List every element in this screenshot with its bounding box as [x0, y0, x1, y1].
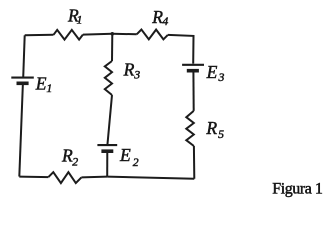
svg-text:R: R	[61, 145, 73, 165]
wire E2 to bottom junction	[106, 151, 108, 176]
battery E1	[11, 73, 52, 95]
node top junction	[111, 32, 115, 36]
svg-text:E: E	[35, 73, 47, 93]
resistor R5	[186, 111, 224, 146]
wire left side lower (E1 to bottom-left corner)	[19, 83, 23, 176]
resistor R1	[54, 5, 83, 39]
wire R3 to E2	[107, 95, 112, 145]
svg-text:4: 4	[162, 14, 168, 28]
svg-text:Figura 1: Figura 1	[272, 181, 323, 198]
svg-text:E: E	[206, 62, 218, 82]
wire junction down to R3	[111, 34, 113, 61]
wire from R1 to top junction	[83, 33, 112, 36]
wire E3 to R5	[192, 71, 194, 111]
svg-text:R: R	[205, 118, 217, 138]
svg-text:E: E	[119, 145, 131, 165]
svg-text:3: 3	[133, 67, 140, 81]
wire from junction to R4	[112, 33, 136, 36]
battery E3	[182, 62, 224, 84]
svg-text:2: 2	[72, 155, 78, 169]
svg-text:3: 3	[218, 70, 225, 84]
wire R4 to top-right corner and down to E3	[168, 35, 194, 64]
wire bottom-left stub	[19, 176, 48, 179]
svg-text:1: 1	[46, 81, 52, 95]
svg-text:R: R	[123, 60, 135, 80]
wire left side upper (top-left corner to E1)	[23, 35, 25, 77]
svg-text:2: 2	[133, 155, 139, 169]
svg-text:5: 5	[218, 127, 224, 141]
caption Figura 1	[272, 181, 323, 198]
wire R5 to bottom-right corner	[193, 146, 195, 179]
svg-text:1: 1	[77, 13, 83, 27]
wire bottom right segment	[107, 177, 194, 179]
resistor R4	[137, 7, 169, 40]
wire top-left segment	[25, 34, 54, 37]
resistor R2	[48, 145, 81, 183]
resistor R3	[105, 60, 141, 95]
battery E2	[97, 145, 138, 169]
wire bottom between junction and R2	[81, 176, 107, 179]
